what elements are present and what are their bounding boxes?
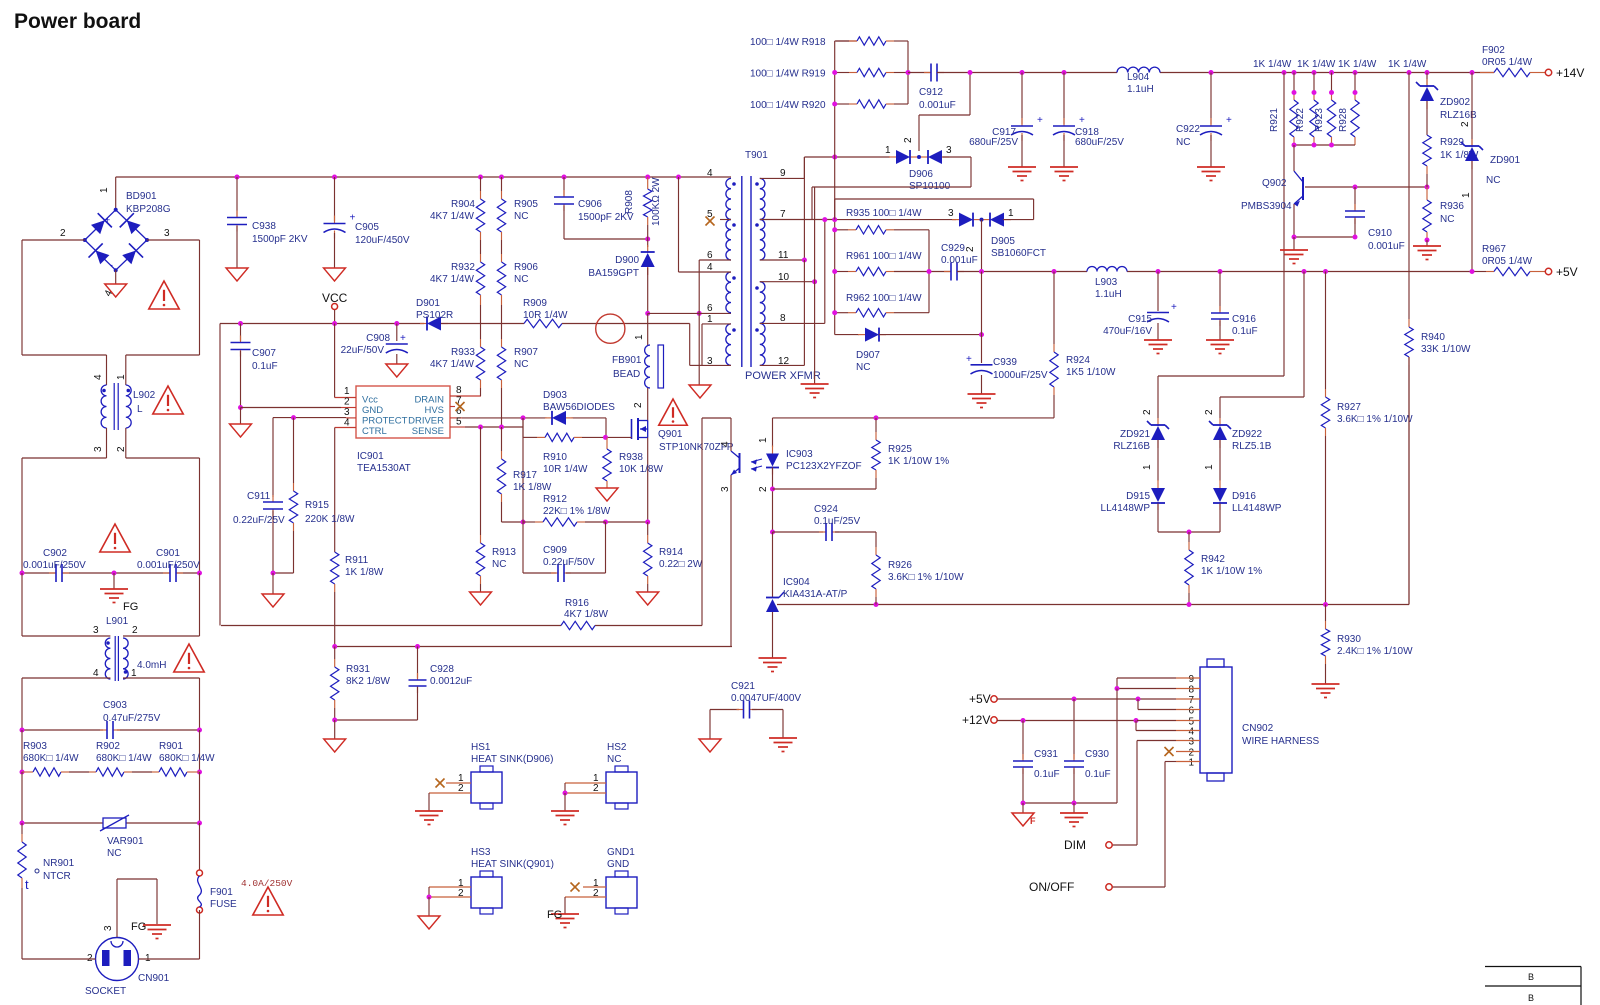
svg-text:C930: C930 [1085, 749, 1109, 760]
svg-text:1K5 1/10W: 1K5 1/10W [1066, 367, 1116, 378]
junction R91x right [906, 70, 911, 75]
svg-text:100□ 1/4W R919: 100□ 1/4W R919 [750, 69, 826, 80]
svg-text:BAW56DIODES: BAW56DIODES [543, 402, 615, 413]
svg-text:680K□ 1/4W: 680K□ 1/4W [23, 753, 79, 764]
resistor R925 [773, 418, 950, 489]
junction D906 row [832, 155, 837, 160]
svg-text:1500pF 2KV: 1500pF 2KV [252, 234, 308, 245]
svg-text:HS1: HS1 [471, 742, 491, 753]
svg-text:HEAT SINK(Q901): HEAT SINK(Q901) [471, 859, 554, 870]
svg-text:1: 1 [1008, 208, 1014, 219]
wire T901 pin1/pin3 feed [702, 324, 731, 366]
svg-text:L901: L901 [106, 616, 129, 627]
wire pin5 SENSE net [465, 418, 523, 522]
svg-text:R912: R912 [543, 494, 567, 505]
svg-text:ZD921: ZD921 [1120, 429, 1150, 440]
junction C911 bottom [271, 571, 276, 576]
svg-text:470uF/16V: 470uF/16V [1103, 326, 1152, 337]
wire +14V bus [937, 72, 1494, 74]
junction R935 row [822, 217, 837, 222]
svg-text:B: B [1528, 972, 1534, 982]
svg-text:8: 8 [780, 313, 786, 324]
svg-text:HS3: HS3 [471, 847, 491, 858]
svg-text:220K 1/8W: 220K 1/8W [305, 514, 355, 525]
node +12V harness [962, 713, 1137, 727]
wire Q902 collector [1293, 145, 1295, 171]
capacitor C912 [908, 64, 956, 112]
svg-text:2: 2 [758, 486, 769, 492]
svg-text:22uF/50V: 22uF/50V [341, 345, 385, 356]
svg-text:1K 1/8W: 1K 1/8W [345, 567, 384, 578]
svg-text:F: F [1030, 816, 1036, 826]
junction R92x mid [1292, 90, 1358, 95]
resistor R935 row [835, 208, 956, 220]
svg-text:+12V: +12V [962, 713, 990, 727]
svg-text:1: 1 [1204, 464, 1215, 470]
svg-text:CN902: CN902 [1242, 723, 1274, 734]
junction R92x join [1292, 143, 1335, 148]
wire Q901 gate [606, 436, 632, 438]
capacitor C906 [554, 177, 648, 239]
wire to FG ground [113, 573, 115, 589]
svg-text:1: 1 [758, 437, 769, 443]
inductor L904 [1117, 67, 1160, 95]
ground Q902 [1280, 237, 1308, 264]
svg-text:100□ 1/4W R920: 100□ 1/4W R920 [750, 100, 826, 111]
ground R930 [1312, 684, 1340, 698]
wire T901 pin9 riser [760, 157, 805, 260]
wire T901 pin6 stub [699, 259, 731, 261]
node ON/OFF [1029, 880, 1112, 894]
resistor R932 [430, 240, 485, 305]
zener ZD902 [1416, 73, 1477, 136]
svg-text:BD901: BD901 [126, 191, 157, 202]
capacitor C938 [227, 177, 308, 268]
resistor R908 [624, 177, 662, 239]
resistor R903 [22, 741, 89, 776]
junction feedback rail [874, 602, 1329, 607]
wire L902 pin3 to lower-left box [22, 428, 107, 573]
svg-text:NC: NC [514, 211, 528, 222]
svg-text:Q902: Q902 [1262, 178, 1287, 189]
wire VCC rail [220, 324, 424, 626]
label R922 value [1297, 59, 1336, 70]
svg-text:R921: R921 [1269, 108, 1280, 132]
svg-text:C902: C902 [43, 548, 67, 559]
svg-text:2.4K□ 1% 1/10W: 2.4K□ 1% 1/10W [1337, 646, 1413, 657]
svg-text:WIRE HARNESS: WIRE HARNESS [1242, 736, 1320, 747]
svg-text:GND: GND [362, 405, 383, 416]
svg-text:IC901: IC901 [357, 451, 384, 462]
capacitor C939 [966, 272, 1048, 395]
junction VCC rail [238, 321, 399, 326]
svg-text:CN901: CN901 [138, 973, 170, 984]
X mark IC901 pin7 [456, 402, 465, 411]
svg-text:0.1uF: 0.1uF [1232, 326, 1258, 337]
ground R931 [324, 720, 346, 752]
svg-text:R940: R940 [1421, 332, 1445, 343]
ground T901 secondary earth [801, 384, 829, 398]
inductor L903 [1087, 267, 1127, 301]
svg-text:POWER XFMR: POWER XFMR [745, 370, 821, 382]
svg-text:HEAT SINK(D906): HEAT SINK(D906) [471, 754, 553, 765]
svg-text:FG: FG [123, 601, 138, 613]
svg-text:3: 3 [946, 145, 952, 156]
wire CN902 pin6 [1138, 699, 1200, 710]
wire CN902 pin9 [1117, 678, 1200, 689]
diode D905 [948, 208, 1046, 259]
svg-text:22K□ 1% 1/8W: 22K□ 1% 1/8W [543, 506, 611, 517]
wire IC903 cathode node [772, 468, 774, 533]
svg-text:D905: D905 [991, 236, 1015, 247]
wire R931 bottom row [335, 719, 418, 721]
ground C911 [262, 573, 284, 607]
wire BD901 output leads [115, 270, 117, 284]
svg-text:10R 1/4W: 10R 1/4W [543, 464, 588, 475]
wire R916 row [221, 418, 731, 626]
wire socket pin2 [22, 888, 96, 959]
wire sense rail [502, 521, 648, 523]
ground C938 [226, 268, 248, 281]
svg-text:ZD922: ZD922 [1232, 429, 1262, 440]
ground C931 flag [1012, 803, 1036, 826]
svg-text:0.001uF: 0.001uF [1368, 241, 1405, 252]
resistor R906 [497, 240, 538, 305]
node +5V harness [969, 692, 1200, 706]
svg-text:8: 8 [1188, 685, 1194, 696]
wire L902 pin2 to lower-right box [126, 428, 200, 573]
svg-text:R967: R967 [1482, 244, 1506, 255]
wire Q902 emitter row [1294, 236, 1355, 238]
heatsink HS1 [429, 742, 553, 811]
wire IC901 pin3 PROTECT [273, 417, 346, 419]
svg-text:SENSE: SENSE [412, 426, 444, 437]
svg-text:D915: D915 [1126, 491, 1150, 502]
svg-text:0.1uF: 0.1uF [1034, 769, 1060, 780]
ground IC901 GND [230, 408, 252, 438]
svg-text:680uF/25V: 680uF/25V [1075, 137, 1124, 148]
wire socket pin1 [139, 910, 200, 959]
diode D906 [885, 137, 952, 192]
svg-text:2: 2 [593, 783, 599, 794]
svg-text:3: 3 [93, 446, 104, 452]
svg-text:C915: C915 [1128, 314, 1152, 325]
ferrite bead FB901 [612, 313, 664, 420]
wire CN902 pin4 [1136, 721, 1200, 731]
svg-text:C938: C938 [252, 221, 276, 232]
warning triangle near BD901 [149, 281, 179, 309]
svg-text:2: 2 [965, 246, 976, 252]
svg-text:R903: R903 [23, 741, 47, 752]
wire T901 pin5 stub [706, 217, 732, 226]
socket CN901 [85, 925, 170, 997]
svg-text:7: 7 [1188, 695, 1194, 706]
svg-text:L903: L903 [1095, 277, 1118, 288]
wire feedback rail [777, 357, 1409, 605]
svg-text:2: 2 [1142, 409, 1153, 415]
svg-text:HS2: HS2 [607, 742, 627, 753]
svg-text:R908: R908 [624, 190, 635, 214]
resistor R933 [430, 305, 485, 396]
svg-text:R936: R936 [1440, 201, 1464, 212]
svg-text:C939: C939 [993, 357, 1017, 368]
svg-text:IC904: IC904 [783, 577, 810, 588]
svg-text:-: - [110, 260, 113, 270]
resistor R918 [750, 37, 908, 48]
svg-text:1.1uH: 1.1uH [1127, 84, 1154, 95]
varistor VAR901 [100, 815, 144, 859]
svg-text:C905: C905 [355, 222, 379, 233]
svg-text:Power board: Power board [14, 10, 141, 33]
svg-text:R961 100□ 1/4W: R961 100□ 1/4W [846, 251, 922, 262]
capacitor C910 [1345, 187, 1405, 252]
svg-text:4: 4 [93, 374, 104, 380]
label R923 value [1338, 59, 1377, 70]
X mark CN902 pin2 [1165, 747, 1201, 756]
svg-text:0.001uF: 0.001uF [941, 255, 978, 266]
svg-text:Vcc: Vcc [362, 395, 378, 406]
wire switching node row [648, 312, 731, 314]
fuse F901 [197, 870, 238, 913]
wire IC901 pin6 DRIVER line [462, 418, 606, 438]
warning triangle near L901 [174, 644, 204, 672]
capacitor C905 [324, 177, 410, 268]
wire C903 row [22, 729, 200, 731]
svg-text:1: 1 [1188, 758, 1194, 769]
ground C916 [1206, 340, 1234, 354]
svg-text:3: 3 [164, 228, 170, 239]
wire C911 R915 bottom [273, 572, 294, 574]
svg-text:2: 2 [344, 397, 350, 408]
svg-text:C921: C921 [731, 681, 755, 692]
svg-text:1000uF/25V: 1000uF/25V [993, 370, 1048, 381]
resistor R901 [152, 741, 215, 776]
svg-text:10R 1/4W: 10R 1/4W [523, 310, 568, 321]
svg-text:R922: R922 [1295, 108, 1306, 132]
svg-text:PC123X2YFZOF: PC123X2YFZOF [786, 461, 862, 472]
resistor R904 [430, 177, 485, 240]
junction IC903 top rail [874, 415, 879, 420]
svg-text:L904: L904 [1127, 72, 1150, 83]
wire top HV bus [116, 177, 731, 210]
wire IC903 anode [772, 418, 774, 447]
svg-text:2: 2 [458, 783, 464, 794]
ground IC904 [759, 658, 787, 672]
ground HS3 [418, 916, 440, 929]
junction +14V bus [968, 70, 1475, 75]
wire T901 pin11 row [760, 258, 807, 263]
svg-text:R928: R928 [1338, 108, 1349, 132]
svg-text:4K7 1/4W: 4K7 1/4W [430, 274, 474, 285]
capacitor C924 [773, 504, 877, 541]
svg-text:0.001uF/250V: 0.001uF/250V [137, 560, 200, 571]
capacitor C907 [231, 324, 278, 408]
svg-text:+: + [400, 333, 406, 344]
svg-text:D901: D901 [416, 298, 440, 309]
resistor R961 [835, 251, 951, 276]
svg-text:120uF/450V: 120uF/450V [355, 235, 410, 246]
capacitor C909 [523, 522, 606, 582]
resistor R936 [1423, 187, 1465, 240]
svg-text:10K 1/8W: 10K 1/8W [619, 464, 663, 475]
svg-text:C903: C903 [103, 700, 127, 711]
svg-text:2: 2 [903, 137, 914, 143]
capacitor C922 [1176, 73, 1232, 168]
wire D905 loop box [835, 199, 1034, 220]
svg-text:1K 1/4W: 1K 1/4W [1253, 59, 1292, 70]
resistor R926 [872, 532, 964, 605]
svg-text:3: 3 [720, 486, 731, 492]
resistor R931 [331, 647, 391, 721]
svg-text:6: 6 [707, 250, 713, 261]
svg-text:C912: C912 [919, 87, 943, 98]
wire T901 pin6b ground drop [689, 313, 711, 398]
svg-text:R924: R924 [1066, 355, 1090, 366]
junction R91x left [832, 70, 837, 107]
junction R931 row [332, 644, 420, 649]
wire IC901 pin2 GND [241, 407, 342, 409]
svg-text:R962 100□ 1/4W: R962 100□ 1/4W [846, 293, 922, 304]
svg-text:NC: NC [1486, 175, 1500, 186]
diode D907 [835, 328, 982, 373]
svg-text:DRIVER: DRIVER [408, 416, 444, 427]
ground R936 [1413, 240, 1441, 260]
svg-text:C922: C922 [1176, 124, 1200, 135]
capacitor C930 [1064, 699, 1111, 803]
svg-text:GND: GND [607, 859, 629, 870]
svg-text:2: 2 [1204, 409, 1215, 415]
svg-text:1: 1 [344, 386, 350, 397]
svg-text:1: 1 [1142, 464, 1153, 470]
svg-text:1K 1/4W: 1K 1/4W [1338, 59, 1377, 70]
svg-text:4: 4 [720, 441, 731, 447]
wire IC903 collector [730, 418, 732, 451]
junction Q902 emitter row [1292, 235, 1358, 240]
svg-text:4: 4 [93, 668, 99, 679]
diode D903 [543, 390, 615, 425]
svg-text:6: 6 [1188, 706, 1194, 717]
resistor R942 [1185, 532, 1262, 605]
svg-text:RLZ5.1B: RLZ5.1B [1232, 441, 1272, 452]
junction C903 row [20, 728, 203, 733]
svg-text:SB1060FCT: SB1060FCT [991, 248, 1046, 259]
svg-text:LL4148WP: LL4148WP [1232, 503, 1282, 514]
svg-text:R925: R925 [888, 444, 912, 455]
junction SENSE net [478, 425, 504, 430]
svg-text:11: 11 [778, 250, 789, 261]
svg-text:0R05 1/4W: 0R05 1/4W [1482, 256, 1533, 267]
svg-text:8K2 1/8W: 8K2 1/8W [346, 676, 390, 687]
ground C930 earth [1060, 803, 1088, 827]
junction IC903 cathode [770, 487, 775, 492]
title block [1485, 967, 1581, 1005]
wire D901 to R909 [441, 323, 524, 325]
wire ZD921 feed vertical [1283, 73, 1285, 377]
wire X-cap row [22, 572, 200, 574]
capacitor C902 [23, 548, 86, 582]
svg-text:+14V: +14V [1556, 66, 1584, 80]
warning triangle near Q901 [659, 399, 688, 425]
diode D916 [1213, 480, 1282, 532]
warning triangle near F901 [253, 887, 283, 915]
wire IC903 top rail [773, 417, 1055, 419]
svg-text:1: 1 [1461, 192, 1472, 198]
svg-text:3: 3 [948, 208, 954, 219]
svg-text:R905: R905 [514, 199, 538, 210]
svg-text:2: 2 [1460, 121, 1471, 127]
junction top bus [235, 175, 682, 180]
wire C-row to L901 [22, 573, 200, 636]
ground C918 [1050, 167, 1078, 181]
zener ZD921 [1113, 409, 1169, 481]
resistor R967 [1475, 244, 1545, 276]
svg-text:C931: C931 [1034, 749, 1058, 760]
ground GND1 FG [547, 909, 579, 928]
svg-text:ON/OFF: ON/OFF [1029, 880, 1074, 894]
capacitor C916 [1211, 272, 1258, 341]
svg-text:4: 4 [707, 262, 713, 273]
svg-text:NC: NC [514, 274, 528, 285]
junction harness ground row [1021, 801, 1077, 806]
wire CN902 pin1 ONOFF [1112, 762, 1200, 888]
svg-text:0.47uF/275V: 0.47uF/275V [103, 713, 161, 724]
svg-text:L: L [137, 404, 143, 415]
svg-text:CTRL: CTRL [362, 426, 387, 437]
junction gate node [603, 435, 608, 440]
svg-text:R907: R907 [514, 347, 538, 358]
svg-text:4K7 1/4W: 4K7 1/4W [430, 211, 474, 222]
svg-text:R909: R909 [523, 298, 547, 309]
svg-text:NC: NC [1440, 214, 1454, 225]
svg-text:C911: C911 [247, 491, 271, 502]
wire D906 pin2 riser [919, 73, 970, 151]
capacitor C928 [409, 647, 473, 721]
thermistor NR901 [18, 823, 75, 892]
wire T901 pin10 row [760, 260, 817, 284]
wire T901 pin8 row [760, 220, 825, 324]
svg-text:BEAD: BEAD [613, 369, 640, 380]
resistor R938 [603, 437, 664, 488]
bridge rectifier BD901 [60, 187, 171, 298]
svg-text:1: 1 [634, 334, 645, 340]
svg-text:C901: C901 [156, 548, 180, 559]
node DIM [1064, 838, 1112, 852]
ground HS1 [415, 811, 443, 825]
ground C921 left [699, 739, 721, 752]
svg-text:5: 5 [456, 417, 462, 428]
svg-text:R917: R917 [513, 470, 537, 481]
resistor R902 [89, 741, 152, 776]
svg-text:VAR901: VAR901 [107, 836, 144, 847]
svg-text:C907: C907 [252, 348, 276, 359]
junction X-cap mid [20, 571, 203, 576]
svg-text:ZD902: ZD902 [1440, 97, 1470, 108]
diode D900 [588, 239, 654, 313]
heatsink HS2 [563, 742, 638, 811]
node +14V [1545, 66, 1584, 80]
svg-text:NC: NC [607, 754, 621, 765]
warning triangle near L902 [153, 386, 183, 414]
junction C924 node [770, 530, 775, 535]
svg-text:680uF/25V: 680uF/25V [969, 137, 1018, 148]
svg-text:PS102R: PS102R [416, 310, 453, 321]
svg-text:+5V: +5V [969, 692, 991, 706]
resistor R927 [1321, 272, 1413, 605]
svg-text:0.001uF: 0.001uF [919, 100, 956, 111]
svg-text:4: 4 [707, 168, 713, 179]
connector CN902 [1188, 659, 1319, 781]
wire IC901 pin1 to VCC [334, 324, 336, 398]
